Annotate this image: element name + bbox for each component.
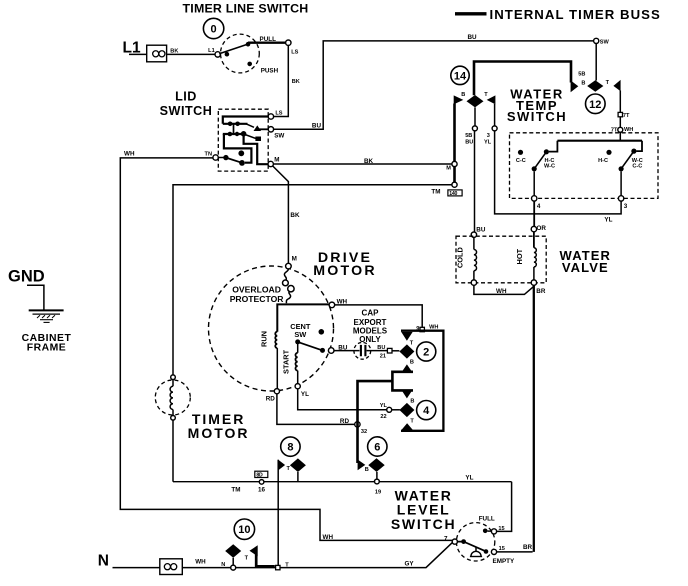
timer line switch S0 [208, 34, 278, 75]
lid switch internals [218, 117, 271, 166]
water level switch arm [457, 539, 488, 554]
svg-text:4: 4 [423, 405, 430, 417]
svg-text:MOTOR: MOTOR [188, 425, 250, 441]
svg-text:T: T [245, 556, 249, 562]
node M of drive motor [286, 263, 292, 269]
svg-text:8D: 8D [256, 473, 263, 479]
svg-text:0: 0 [211, 24, 217, 36]
wire L1 lead [129, 53, 147, 55]
svg-text:COLD: COLD [456, 246, 465, 268]
svg-text:RD: RD [340, 418, 350, 425]
node 5B BU below contact 14 [465, 107, 477, 145]
svg-text:15: 15 [498, 526, 504, 532]
svg-text:WH: WH [124, 151, 135, 158]
svg-text:5B: 5B [578, 72, 585, 78]
svg-text:M: M [446, 165, 451, 171]
wire WH to contact 2 terminal 9 [335, 305, 423, 327]
svg-text:T: T [410, 419, 414, 425]
svg-text:7: 7 [444, 535, 448, 542]
node 16 TM [231, 480, 265, 494]
cam contact 14 diamond [467, 95, 484, 107]
water level switch dashed circle [456, 523, 494, 561]
svg-text:GND: GND [8, 267, 45, 285]
wire RD to terminal 32 [277, 394, 355, 425]
wire contact 12 T down to 7T [619, 91, 621, 113]
node N terminal [231, 565, 236, 570]
wire SW down to contact 12 [595, 44, 597, 81]
svg-text:BU: BU [476, 226, 486, 233]
wire BU down to water valve [474, 131, 476, 232]
svg-text:PROTECTOR: PROTECTOR [230, 294, 285, 304]
contact 2-4 buss box [401, 331, 443, 431]
water valve box [456, 236, 546, 283]
wire N terminal to T and water level switch [236, 542, 453, 567]
cam contact 4 triangle T [401, 419, 414, 431]
svg-text:TM: TM [431, 189, 440, 196]
svg-text:FULL: FULL [479, 515, 495, 522]
svg-text:SW: SW [600, 39, 610, 45]
cam contact 8 triangle T [278, 460, 290, 472]
water temp switch pole 2 [598, 149, 643, 172]
cam interval 4 [417, 401, 436, 420]
svg-text:TN: TN [205, 152, 212, 158]
svg-text:LID: LID [175, 89, 197, 103]
timer motor dashed circle [155, 380, 190, 415]
svg-text:M: M [292, 256, 297, 263]
svg-text:BK: BK [170, 48, 178, 54]
wire thick elbow contact 10 to node T [256, 554, 275, 566]
svg-text:B: B [581, 80, 585, 86]
cam interval 6 [368, 437, 387, 456]
svg-text:2: 2 [423, 347, 429, 359]
run winding [259, 331, 277, 389]
node SW of lid switch [268, 127, 284, 140]
connector 7T square [618, 112, 630, 119]
cam contact 6 triangle B [358, 460, 369, 473]
cam contact 12 triangle T [606, 80, 621, 92]
node OR [531, 225, 546, 248]
timer buss top (contact 14 and 12 feed) [474, 62, 571, 96]
timer motor coil [170, 375, 175, 420]
node 4 of water temp switch [532, 171, 541, 210]
node WH of drive motor [329, 298, 347, 307]
svg-text:3: 3 [487, 133, 490, 139]
svg-text:BK: BK [292, 79, 300, 85]
svg-text:32: 32 [361, 429, 367, 435]
ground (cabinet frame) [29, 310, 64, 322]
cam contact 10 diamond [221, 544, 248, 568]
svg-text:12: 12 [589, 99, 601, 111]
timer buss vertical at contact 14 B [453, 104, 456, 185]
svg-text:WH: WH [624, 127, 633, 133]
boxed label 140 [448, 190, 462, 197]
svg-text:21: 21 [380, 353, 386, 359]
wire BU from SW up and across top [274, 34, 594, 129]
cam contact 8 diamond [290, 458, 306, 481]
wire YL to terminal 22 [298, 389, 387, 410]
node LS (timer line switch output) [286, 40, 299, 55]
connector 9 WH square [416, 325, 438, 332]
cam contact 10 triangle T [250, 545, 258, 556]
water temp switch title [507, 87, 567, 124]
svg-text:TM: TM [231, 486, 240, 493]
svg-text:140: 140 [449, 191, 457, 197]
node 3 YL below contact 14 [484, 104, 497, 146]
svg-text:SW: SW [274, 132, 284, 139]
svg-text:5B: 5B [465, 133, 472, 139]
node TM on buss [431, 182, 457, 196]
wire WH bottom [182, 558, 230, 567]
node 3 of water temp switch [618, 171, 627, 210]
node LS of lid switch [268, 110, 283, 119]
svg-text:ONLY: ONLY [359, 335, 381, 344]
node 19 [375, 479, 382, 495]
svg-text:8: 8 [287, 442, 293, 454]
node M on buss [446, 161, 457, 171]
timer buss to contact 6 [358, 381, 393, 463]
water temp switch box [510, 133, 659, 199]
svg-text:B: B [410, 398, 414, 404]
node 22 YL [380, 403, 400, 420]
legend INTERNAL TIMER BUSS [455, 7, 661, 22]
svg-text:LS: LS [275, 110, 282, 116]
svg-text:14: 14 [454, 70, 467, 82]
node 32 RD on buss [355, 422, 367, 435]
cam contact 12 triangle B [571, 72, 586, 93]
svg-text:22: 22 [380, 414, 386, 420]
water level switch title [391, 487, 456, 532]
water valve title [560, 248, 611, 275]
svg-text:INTERNAL TIMER BUSS: INTERNAL TIMER BUSS [490, 7, 661, 22]
wire N lead [113, 567, 160, 569]
wire YL down to water level switch FULL [497, 482, 512, 532]
svg-text:LS: LS [291, 49, 298, 55]
svg-text:START: START [282, 349, 291, 374]
svg-text:BU: BU [377, 345, 385, 351]
cam interval 12 [586, 94, 606, 114]
svg-text:SWITCH: SWITCH [160, 104, 213, 118]
node YL of drive motor [295, 384, 309, 398]
node SW top right [594, 38, 610, 45]
svg-text:BK: BK [290, 212, 300, 219]
connector P2 (N plug) [160, 559, 183, 575]
svg-text:C-C: C-C [516, 158, 526, 164]
svg-text:WH: WH [496, 288, 507, 295]
svg-text:L1: L1 [208, 48, 215, 54]
water temp switch internal buss [549, 141, 642, 152]
svg-text:BR: BR [536, 288, 546, 295]
svg-text:YL: YL [465, 475, 473, 482]
cam contact 12 diamond [587, 80, 603, 91]
wire EMPTY BR [497, 544, 533, 552]
wire BR down right side [533, 285, 535, 552]
svg-text:T: T [484, 92, 488, 98]
cam contact 4 triangle B [401, 390, 414, 405]
cam contact 2 triangle T [401, 332, 414, 347]
wire YL to water temp switch terminal 3 [495, 131, 621, 224]
wire timer motor to main neutral wire [172, 420, 174, 482]
lid switch title [160, 89, 213, 118]
svg-text:10: 10 [238, 524, 250, 536]
cam contact 2 diamond [399, 344, 414, 358]
contact FULL [479, 515, 505, 534]
svg-text:VALVE: VALVE [562, 260, 609, 275]
boxed label 8D [255, 471, 268, 478]
wire overload to WH node [277, 304, 329, 331]
svg-text:SW: SW [294, 330, 306, 339]
svg-text:MOTOR: MOTOR [313, 263, 377, 279]
svg-text:B: B [365, 467, 369, 473]
svg-text:T: T [287, 466, 291, 472]
main wire y481.7 [173, 481, 512, 483]
wire WH below water valve [474, 285, 546, 295]
centrifugal switch [290, 322, 325, 353]
svg-text:BU: BU [468, 34, 478, 41]
cam contact 2 triangle B [401, 360, 414, 373]
cam interval 10 [234, 519, 254, 539]
svg-text:YL: YL [301, 391, 309, 398]
wire BK to drive motor M [273, 166, 300, 263]
svg-text:H-C: H-C [598, 158, 608, 164]
cam contact 4 diamond [399, 403, 414, 417]
svg-text:OR: OR [537, 225, 547, 232]
wire TM to timer motor [173, 185, 452, 375]
wire WH left side [120, 151, 452, 541]
node BU at water valve [471, 226, 486, 237]
wire BK down to lid switch [274, 45, 300, 116]
svg-text:EMPTY: EMPTY [493, 558, 515, 565]
svg-text:YL: YL [380, 403, 388, 409]
timer buss Z link [392, 372, 413, 391]
svg-text:N: N [98, 552, 109, 569]
overload protector [230, 269, 294, 304]
svg-text:C-C: C-C [632, 164, 642, 170]
svg-text:T: T [606, 80, 610, 86]
node BU of drive motor [328, 345, 347, 354]
svg-text:RD: RD [266, 396, 276, 403]
cam contact 14 triangle T [484, 92, 495, 104]
svg-text:HOT: HOT [515, 248, 524, 264]
svg-text:WH: WH [323, 534, 334, 541]
svg-text:SWITCH: SWITCH [391, 516, 456, 532]
svg-text:RUN: RUN [259, 331, 268, 347]
drive motor title [313, 250, 377, 279]
svg-text:W-C: W-C [544, 164, 555, 170]
cabinet frame label [22, 333, 72, 353]
svg-text:T: T [410, 341, 414, 347]
wire BK to timer line switch [167, 48, 215, 54]
svg-text:TIMER LINE SWITCH: TIMER LINE SWITCH [183, 2, 309, 16]
svg-text:6: 6 [374, 442, 380, 454]
cam interval 14 [451, 66, 469, 84]
node RD of drive motor [266, 389, 280, 403]
svg-text:GY: GY [405, 560, 415, 567]
cam interval 0 [203, 18, 223, 38]
svg-text:SWITCH: SWITCH [507, 109, 567, 124]
node 7T WH at water temp switch [611, 117, 633, 141]
wire PULL to LS [248, 42, 286, 44]
node M of lid switch [268, 157, 280, 167]
solenoid COLD [456, 237, 477, 285]
svg-text:M: M [274, 157, 279, 164]
start winding [282, 342, 298, 384]
svg-text:PUSH: PUSH [261, 68, 279, 75]
capacitor CAP (export models) [334, 309, 388, 359]
wire M (BK) lid switch to timer bus [273, 158, 452, 165]
svg-text:3: 3 [624, 203, 628, 210]
svg-text:B: B [410, 360, 414, 366]
svg-text:BR: BR [523, 544, 533, 551]
cam contact 6 diamond [368, 458, 384, 479]
cam interval 2 [417, 342, 436, 361]
svg-text:B: B [461, 92, 465, 98]
svg-text:BU: BU [465, 140, 473, 146]
node 7 of water level switch [444, 535, 457, 544]
solenoid HOT [515, 248, 537, 286]
cam interval 8 [281, 437, 300, 456]
svg-text:16: 16 [258, 486, 266, 493]
svg-text:15: 15 [499, 546, 505, 552]
timer motor title [188, 411, 250, 441]
lid switch box [218, 109, 268, 171]
svg-text:BU: BU [312, 122, 322, 129]
svg-text:OVERLOAD: OVERLOAD [232, 284, 281, 294]
svg-text:CAP: CAP [362, 309, 380, 318]
wire OR terminal 4 to water valve [533, 201, 535, 226]
svg-text:WH: WH [195, 558, 206, 565]
connector P1 (L1 plug) [147, 45, 167, 62]
svg-text:19: 19 [375, 490, 381, 496]
contact EMPTY [491, 546, 515, 565]
connector 21 BU square [377, 345, 399, 360]
node T square [276, 562, 290, 569]
svg-text:YL: YL [484, 140, 492, 146]
svg-text:YL: YL [604, 217, 612, 224]
node TN of lid switch [205, 152, 219, 161]
cam contact 14 triangle B [454, 92, 466, 104]
svg-text:4: 4 [537, 203, 541, 210]
water temp switch pole 1 [516, 149, 555, 171]
pressure dome [470, 547, 482, 557]
svg-text:FRAME: FRAME [27, 342, 66, 353]
wire contact 8 T down to node T [277, 460, 279, 566]
wire GND [27, 285, 44, 310]
drive motor dashed circle [209, 266, 334, 391]
svg-text:7T: 7T [623, 113, 630, 119]
